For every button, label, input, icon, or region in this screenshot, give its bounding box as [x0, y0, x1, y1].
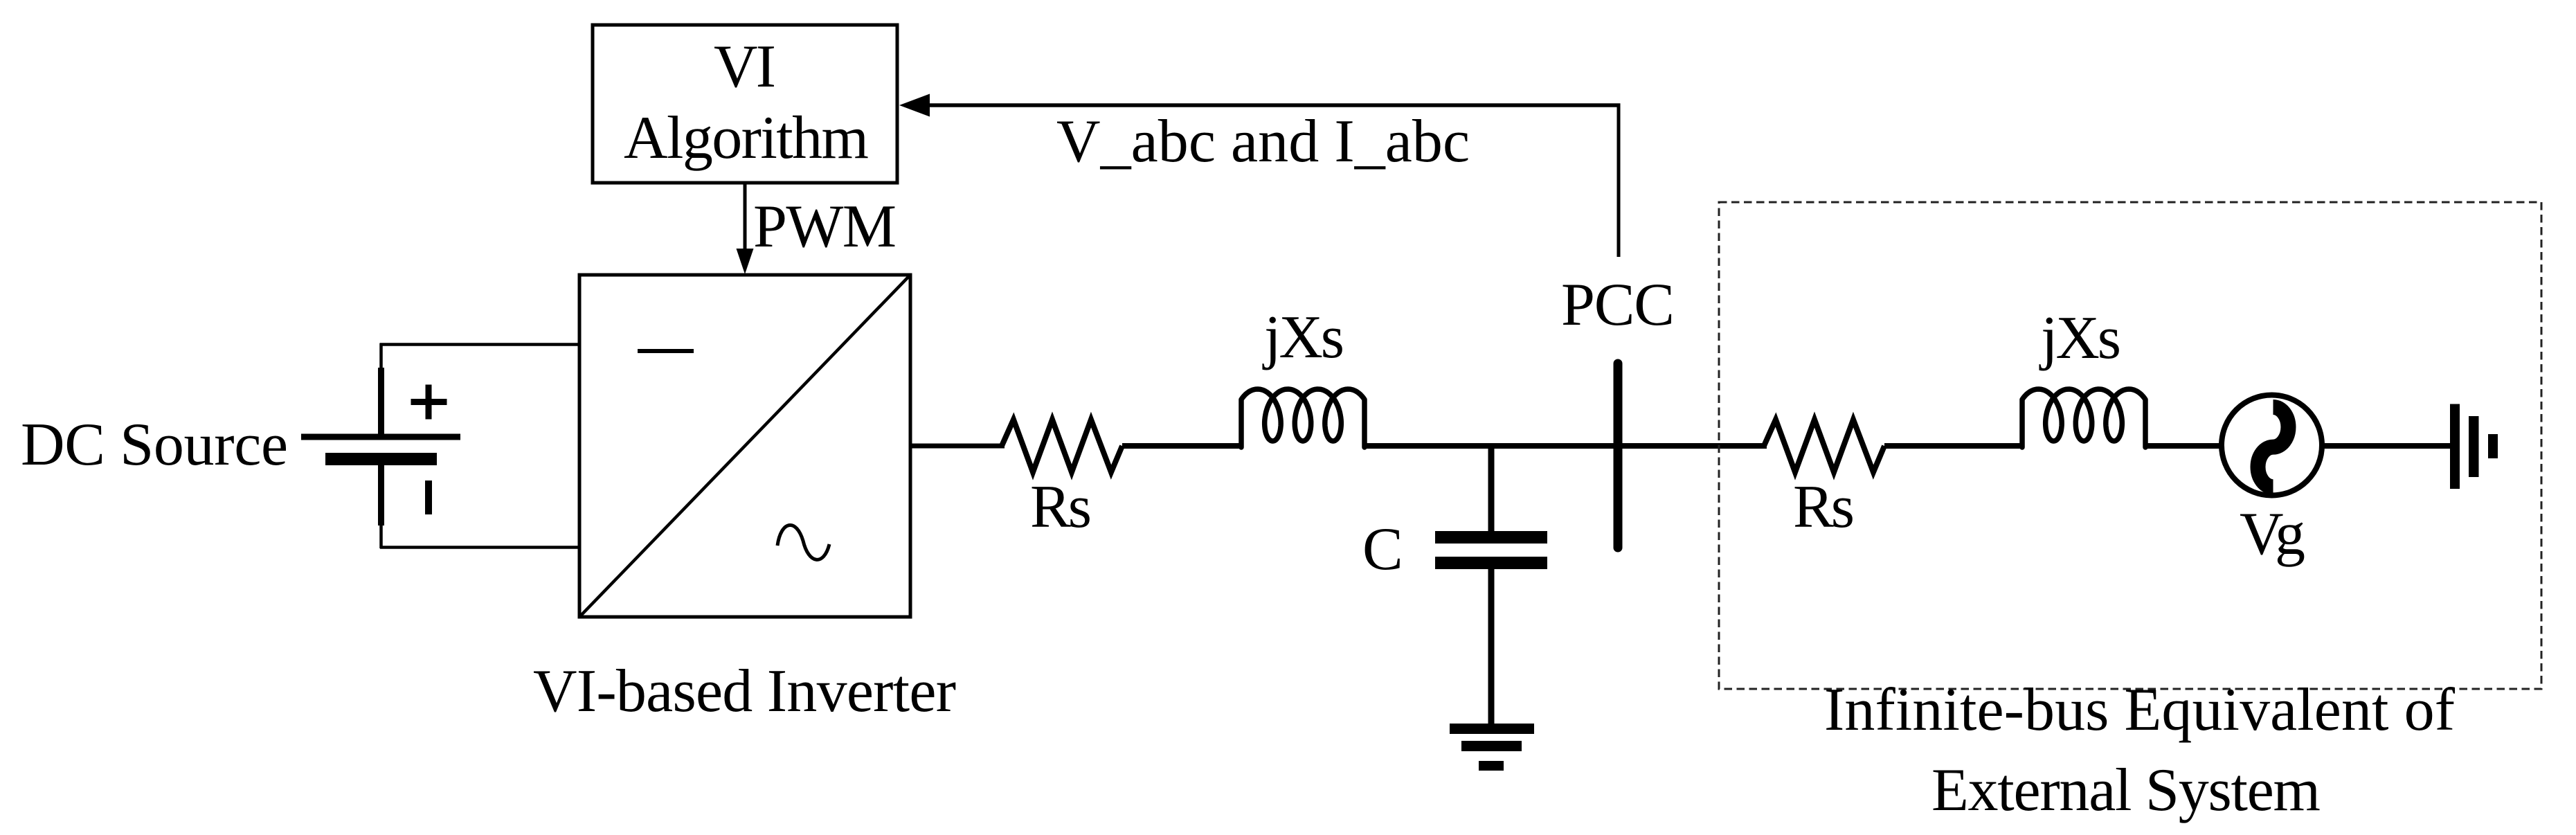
VI Algorithm box: [593, 25, 897, 183]
svg-text:PCC: PCC: [1561, 271, 1675, 339]
svg-text:PWM: PWM: [753, 193, 897, 260]
inverter diagonal: [581, 276, 909, 616]
inverter U1 box: [579, 275, 910, 617]
svg-text:C: C: [1362, 516, 1403, 583]
resistor Rs2: [1764, 420, 1884, 472]
inverter DC minus sign: [638, 349, 694, 353]
battery top wire: [380, 343, 581, 346]
wire capacitor node to PCC bus: [1488, 443, 1623, 449]
svg-text:External System: External System: [1931, 757, 2321, 824]
wire L2 to Vg: [2145, 443, 2224, 449]
wire feedback vertical (PCC tap): [1617, 104, 1621, 258]
capacitor C1 lower wire: [1488, 569, 1495, 725]
AC source Vg sine glyph: [2258, 407, 2289, 487]
battery positive plate (long): [301, 434, 460, 440]
wire L1 to capacitor node: [1364, 443, 1494, 449]
wire PCC bus to Rs2: [1618, 443, 1767, 449]
capacitor C1 top plate: [1435, 531, 1547, 544]
inverter AC sine: [777, 525, 829, 559]
svg-text:Infinite-bus Equivalent of: Infinite-bus Equivalent of: [1824, 676, 2456, 744]
capacitor C1 bottom plate: [1435, 557, 1547, 569]
inductor L2: [2022, 389, 2145, 447]
svg-text:Rs: Rs: [1030, 474, 1092, 541]
battery bottom wire: [380, 546, 581, 549]
resistor Rs1: [1002, 420, 1122, 472]
svg-text:VI-based Inverter: VI-based Inverter: [533, 658, 956, 725]
battery positive terminal stem: [379, 343, 383, 370]
svg-text:Vg: Vg: [2240, 501, 2305, 568]
wire Vg to ground: [2322, 443, 2451, 449]
inductor L1: [1241, 389, 1364, 447]
svg-text:jXs: jXs: [2039, 305, 2121, 372]
arrowhead feedback: [899, 94, 930, 117]
svg-text:Algorithm: Algorithm: [624, 105, 869, 172]
wire feedback horizontal (PCC to VI Algorithm): [928, 103, 1621, 107]
battery minus sign: [425, 481, 432, 514]
svg-text:jXs: jXs: [1262, 304, 1344, 371]
svg-text:DC Source: DC Source: [21, 411, 288, 478]
ground (right, sideways): [2450, 404, 2460, 490]
PCC bus bar: [1614, 363, 1623, 548]
battery plus sign: [411, 399, 447, 405]
wire Rs2 to L2: [1884, 443, 2024, 449]
battery negative plate (thick): [325, 453, 437, 465]
arrowhead PWM: [737, 249, 754, 274]
ground (capacitor): [1450, 724, 1534, 734]
wire inverter output: [910, 444, 1005, 449]
capacitor C1 upper wire: [1488, 446, 1495, 532]
AC source Vg circle: [2222, 395, 2322, 496]
svg-text:Rs: Rs: [1793, 474, 1855, 541]
svg-text:V_abc and I_abc: V_abc and I_abc: [1056, 108, 1470, 175]
wire PWM (VI Algorithm to inverter): [744, 183, 747, 251]
dashed box: infinite-bus equivalent: [1719, 202, 2541, 689]
battery negative terminal stem: [378, 465, 384, 526]
wire Rs1 to L1: [1122, 443, 1243, 449]
svg-text:VI: VI: [714, 33, 776, 100]
